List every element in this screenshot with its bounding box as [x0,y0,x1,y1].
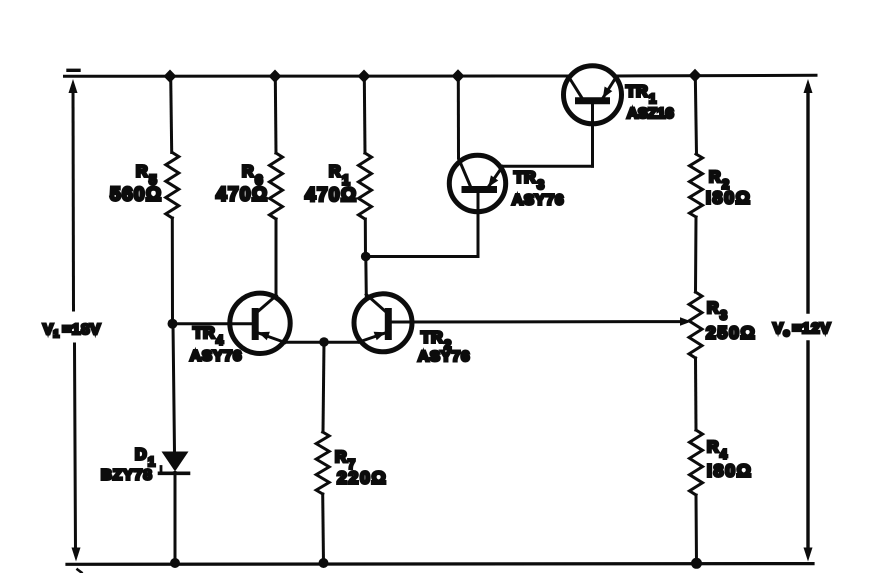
transistor TR4 circle [230,293,290,353]
TR3 base wire down [477,193,480,257]
node junction dot R5/D1/TR4-base [168,319,178,329]
wire from R5 down to junction with TR4 base [171,218,174,324]
svg-text:I80Ω: I80Ω [706,188,752,208]
wiper arrowhead into R3 [680,317,692,326]
resistor R6 zigzag [270,153,283,219]
wire from D1 cathode to bottom rail [174,473,177,564]
TR4 base bar [252,312,259,337]
svg-text:ASY76: ASY76 [418,348,471,365]
arrowhead up, top of Vi arrow [69,79,78,93]
wire top supply rail, left part up to TR1 [65,75,569,78]
TR1 base bar [579,97,607,104]
TR3 collector diagonal (from top rail wire) [459,160,471,187]
input voltage arrow Vi (left), upper segment [72,86,76,310]
wire from R4 to bottom rail [695,495,699,564]
wire TR4 base from R5 junction (horizontal) [173,322,253,325]
TR3 emitter diagonal with arrow [488,167,502,188]
node junction dot TR4/TR2 emitters and R7 [319,337,329,347]
TR1 base wire down [591,104,594,166]
node junction dot R1/TR3-base/TR2-collector [361,252,371,262]
wire from emitter junction down to R7 [323,342,324,432]
resistor R7 zigzag [316,432,329,494]
output voltage arrow Vo (right), upper segment [806,86,809,312]
resistor R2 zigzag [690,154,703,217]
output voltage arrow Vo (right), lower segment [806,342,809,552]
input voltage arrow Vi (left), lower segment [75,344,76,552]
wire from R7 to bottom rail [321,494,325,564]
svg-text:250Ω: 250Ω [706,323,756,343]
svg-text:220Ω: 220Ω [337,468,387,488]
resistor R3 zigzag (with wiper) [689,292,702,358]
svg-text:I80Ω: I80Ω [707,461,753,481]
svg-text:470Ω: 470Ω [305,185,358,206]
wire from R1 down to node with TR3 base wire [364,219,367,257]
node junction dot on bottom rail at R4 column [691,558,702,569]
TR2 base bar [385,312,392,337]
node junction dot on bottom rail at R7 column [319,558,329,568]
svg-text:ASY76: ASY76 [190,348,243,365]
svg-text:Vo=12V: Vo=12V [773,320,831,339]
transistor TR3 circle [449,155,505,211]
TR2 emitter diagonal with arrow [359,332,387,342]
TR1 emitter diagonal with arrow (from right rail) [603,77,617,99]
wire node down to TR2 collector [364,257,368,297]
svg-text:ASY76: ASY76 [512,192,565,209]
wire from top rail down to TR3 emitter [457,76,460,158]
wire from R6 down to TR4 collector [275,219,278,296]
node junction dot on top rail at R1 column [358,70,371,83]
arrowhead down, bottom of Vo arrow [804,548,813,562]
polarity tick below bottom-left rail end [78,570,82,573]
wire from R3 down to R4 [694,358,698,430]
TR2 collector diagonal (up to R1 node) [366,295,388,314]
svg-text:ASZ16: ASZ16 [627,105,674,122]
node junction dot on top rail at R5 column [164,70,177,83]
transistor TR2 circle [354,294,412,352]
wire from top rail down to R1 [363,76,367,153]
wire from top rail down to R6 [274,76,278,153]
wire from R2 down to R3 [694,217,698,292]
svg-text:560Ω: 560Ω [110,185,163,206]
wire bottom common rail [67,562,813,566]
TR1 collector diagonal (to left rail) [569,77,583,99]
svg-text:470Ω: 470Ω [216,185,269,206]
resistor R1 zigzag [359,153,372,219]
arrowhead down, bottom of Vi arrow [72,548,81,562]
svg-text:BZY78: BZY78 [101,467,153,484]
transistor TR1 circle [564,66,622,124]
wire top supply rail, right part from TR1 [617,74,817,78]
TR4 emitter diagonal with arrow [257,332,285,343]
node junction dot on bottom rail at D1 column [170,558,180,568]
arrowhead up, top of Vo arrow [804,79,813,93]
wire TR3 emitter to TR1 base (horizontal) [502,165,593,168]
node junction dot on top rail at R2 column [689,69,702,82]
wire TR4 emitter to junction (horizontal) [284,341,324,344]
wire from top rail down to R2 [695,76,696,155]
diode D1 (zener BZY78), cathode down [160,452,189,474]
TR4 collector diagonal (up to R6) [256,296,277,314]
wire TR2 emitter to junction (horizontal) [324,341,360,344]
resistor R4 zigzag [690,430,703,495]
wire TR2 base to R3 wiper (horizontal) [392,320,681,323]
TR3 base bar [465,186,494,193]
wire from top rail down to R5 [171,76,172,153]
wire TR3 base to R1 node (horizontal) [366,255,478,258]
svg-text:V1=18V: V1=18V [43,321,101,340]
node junction dot on top rail at R6 column [269,70,282,83]
wire from junction down to diode D1 anode [173,324,175,452]
polarity tick above top-left rail end [68,69,79,72]
node junction dot on top rail at TR3 branch [452,69,465,82]
resistor R5 zigzag [166,153,179,219]
